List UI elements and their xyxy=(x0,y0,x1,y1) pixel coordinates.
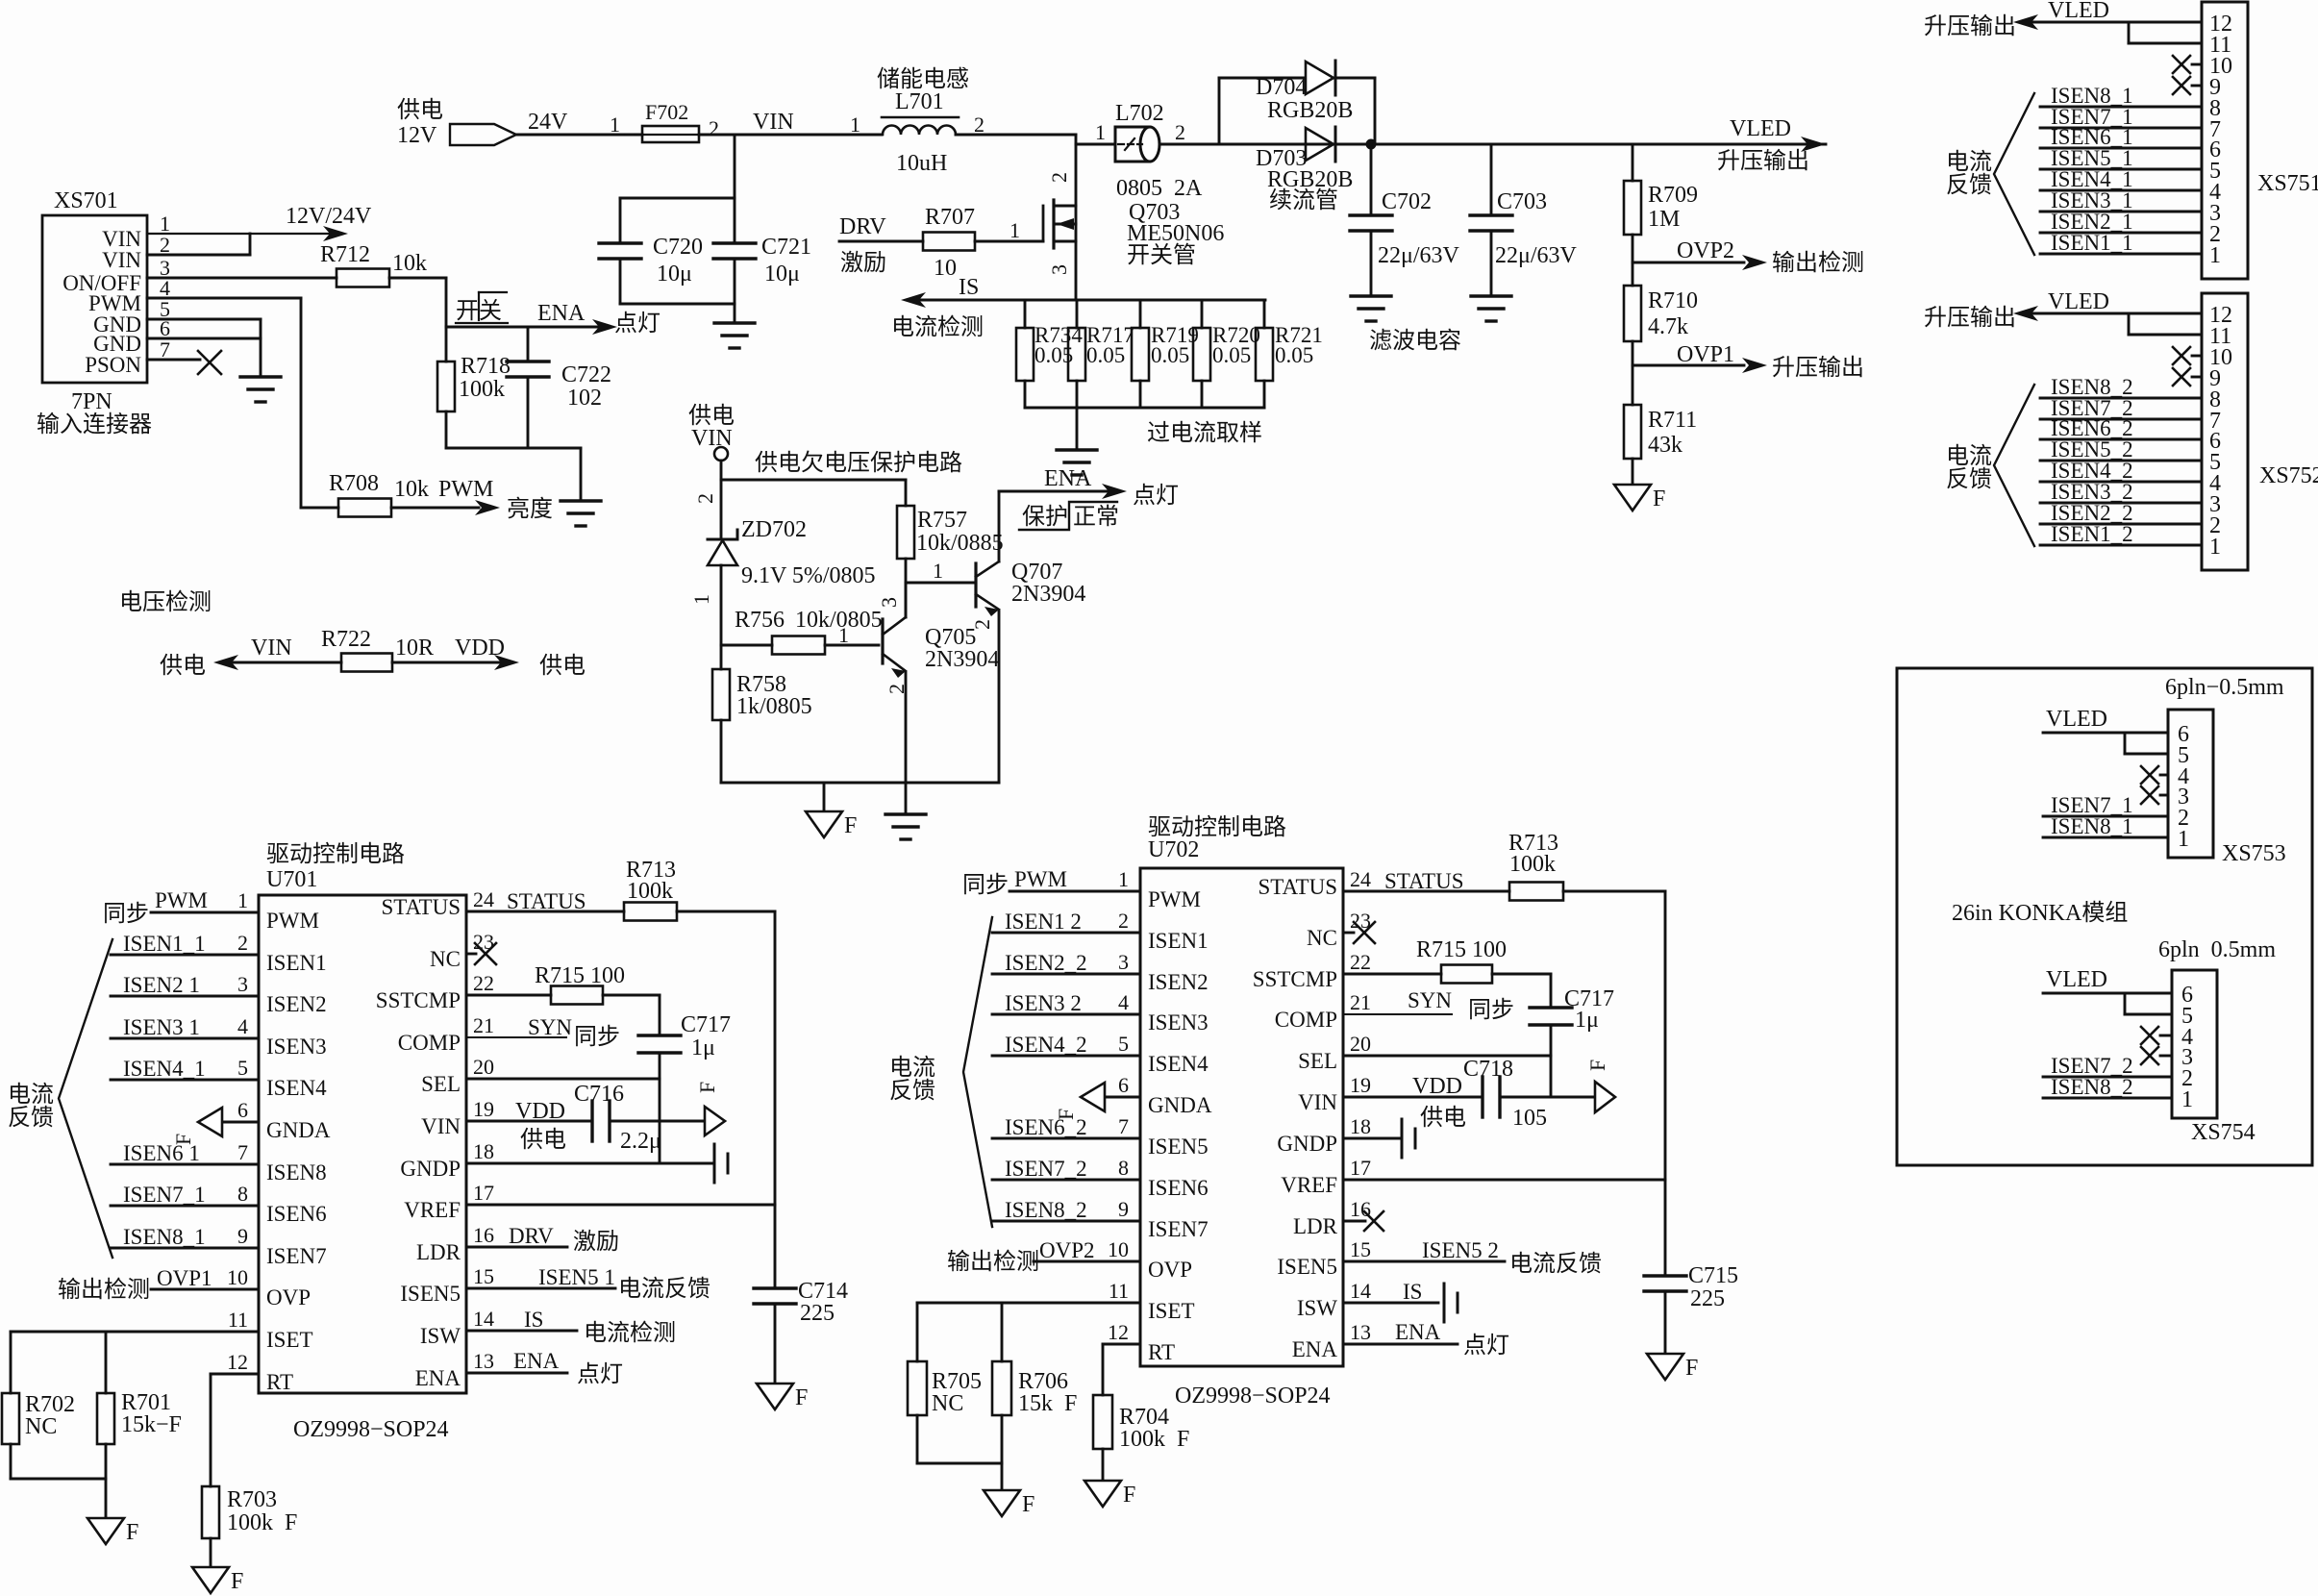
svg-text:LDR: LDR xyxy=(1293,1214,1338,1238)
svg-text:同步: 同步 xyxy=(103,901,149,927)
svg-text:1: 1 xyxy=(2209,243,2221,268)
svg-text:电流反馈: 电流反馈 xyxy=(618,1276,710,1302)
svg-text:7: 7 xyxy=(160,337,170,362)
svg-text:F: F xyxy=(795,1385,808,1410)
svg-text:10μ: 10μ xyxy=(764,262,800,287)
svg-text:VLED: VLED xyxy=(2048,289,2109,314)
svg-text:2.2μ: 2.2μ xyxy=(620,1129,661,1154)
svg-text:电流检测: 电流检测 xyxy=(891,314,984,340)
svg-text:VIN: VIN xyxy=(251,636,292,661)
svg-text:C716: C716 xyxy=(574,1082,624,1107)
svg-text:NC: NC xyxy=(25,1414,57,1439)
svg-text:13: 13 xyxy=(1350,1320,1371,1344)
svg-text:R718: R718 xyxy=(461,354,511,379)
svg-text:LDR: LDR xyxy=(416,1240,461,1264)
svg-text:正常: 正常 xyxy=(1073,504,1119,530)
svg-text:DRV: DRV xyxy=(839,214,886,239)
svg-text:2: 2 xyxy=(1175,120,1185,144)
svg-text:XS701: XS701 xyxy=(54,188,118,213)
svg-text:NC: NC xyxy=(430,947,461,971)
svg-text:4: 4 xyxy=(237,1014,248,1038)
svg-text:12: 12 xyxy=(1108,1320,1129,1344)
svg-text:16: 16 xyxy=(1350,1197,1371,1221)
svg-text:GNDA: GNDA xyxy=(1148,1093,1212,1117)
svg-text:ISET: ISET xyxy=(1148,1299,1195,1323)
svg-text:ISEN8_2: ISEN8_2 xyxy=(1005,1198,1087,1222)
svg-text:R708: R708 xyxy=(329,471,379,496)
svg-text:VLED: VLED xyxy=(2046,707,2107,732)
svg-text:F: F xyxy=(844,813,857,838)
svg-text:VIN: VIN xyxy=(102,248,141,272)
svg-text:电压检测: 电压检测 xyxy=(119,589,212,615)
svg-text:同步: 同步 xyxy=(1468,997,1514,1023)
svg-text:3: 3 xyxy=(877,597,901,608)
svg-text:ENA: ENA xyxy=(1044,466,1092,491)
svg-text:续流管: 续流管 xyxy=(1269,187,1338,213)
svg-text:26in KONKA模组: 26in KONKA模组 xyxy=(1952,900,2128,926)
svg-text:9.1V 5%/0805: 9.1V 5%/0805 xyxy=(741,563,876,588)
svg-text:驱动控制电路: 驱动控制电路 xyxy=(266,841,405,867)
svg-text:ISEN4: ISEN4 xyxy=(1148,1052,1209,1076)
svg-text:供电: 供电 xyxy=(520,1127,566,1153)
svg-text:激励: 激励 xyxy=(573,1229,619,1255)
svg-text:PSON: PSON xyxy=(85,353,141,377)
svg-text:1: 1 xyxy=(2181,1087,2193,1112)
svg-text:R722: R722 xyxy=(321,627,371,652)
svg-text:102: 102 xyxy=(567,386,602,411)
svg-text:ISW: ISW xyxy=(420,1324,461,1348)
svg-text:ISEN6_2: ISEN6_2 xyxy=(1005,1115,1087,1139)
svg-text:C703: C703 xyxy=(1497,189,1547,214)
svg-text:供电欠电压保护电路: 供电欠电压保护电路 xyxy=(755,450,962,476)
svg-text:10: 10 xyxy=(934,256,957,281)
svg-text:R707: R707 xyxy=(925,205,975,230)
svg-text:电流检测: 电流检测 xyxy=(584,1320,676,1346)
svg-text:PWM: PWM xyxy=(1014,867,1067,891)
svg-text:ISEN1_1: ISEN1_1 xyxy=(123,932,206,956)
svg-text:升压输出: 升压输出 xyxy=(1772,355,1864,381)
svg-text:OZ9998−SOP24: OZ9998−SOP24 xyxy=(293,1417,449,1442)
svg-text:输出检测: 输出检测 xyxy=(947,1249,1039,1275)
svg-text:R711: R711 xyxy=(1648,408,1697,433)
svg-text:ISEN5: ISEN5 xyxy=(1148,1135,1209,1159)
svg-text:RT: RT xyxy=(1148,1340,1175,1364)
svg-text:225: 225 xyxy=(800,1301,835,1326)
svg-text:1: 1 xyxy=(689,594,713,605)
svg-text:XS754: XS754 xyxy=(2191,1120,2256,1145)
svg-text:C702: C702 xyxy=(1382,189,1432,214)
svg-text:24: 24 xyxy=(473,887,494,911)
svg-text:10R: 10R xyxy=(395,636,434,661)
svg-text:开关管: 开关管 xyxy=(1127,242,1196,268)
svg-text:滤波电容: 滤波电容 xyxy=(1369,328,1461,354)
svg-text:F: F xyxy=(231,1569,243,1594)
svg-text:点灯: 点灯 xyxy=(1463,1333,1509,1359)
svg-text:ISEN3 1: ISEN3 1 xyxy=(123,1015,200,1039)
svg-text:100k: 100k xyxy=(459,377,505,402)
svg-text:ISEN8_1: ISEN8_1 xyxy=(123,1225,206,1249)
svg-text:VDD: VDD xyxy=(455,636,505,661)
svg-text:F: F xyxy=(126,1520,138,1545)
svg-text:电流: 电流 xyxy=(1946,149,1992,175)
svg-text:COMP: COMP xyxy=(398,1031,461,1055)
svg-text:ISEN8: ISEN8 xyxy=(266,1160,327,1185)
svg-text:ISEN3: ISEN3 xyxy=(266,1035,327,1059)
svg-text:1k/0805: 1k/0805 xyxy=(736,694,812,719)
svg-text:9: 9 xyxy=(1118,1197,1129,1221)
svg-text:14: 14 xyxy=(1350,1279,1371,1303)
svg-text:11: 11 xyxy=(228,1308,248,1332)
svg-text:F: F xyxy=(1653,486,1665,511)
svg-text:电流反馈: 电流反馈 xyxy=(1509,1251,1602,1277)
svg-text:24V: 24V xyxy=(528,110,568,135)
svg-text:OZ9998−SOP24: OZ9998−SOP24 xyxy=(1175,1384,1331,1409)
svg-text:19: 19 xyxy=(473,1097,494,1121)
svg-text:RGB20B: RGB20B xyxy=(1267,98,1353,123)
svg-text:VREF: VREF xyxy=(1281,1173,1337,1197)
svg-text:2: 2 xyxy=(693,493,717,504)
svg-text:R757: R757 xyxy=(917,508,967,533)
svg-text:SYN: SYN xyxy=(1408,988,1452,1012)
svg-text:R703: R703 xyxy=(227,1487,277,1512)
svg-text:6: 6 xyxy=(1118,1073,1129,1097)
svg-text:1: 1 xyxy=(2209,535,2221,560)
svg-text:3: 3 xyxy=(237,972,248,996)
svg-text:L702: L702 xyxy=(1115,101,1164,126)
svg-text:SSTCMP: SSTCMP xyxy=(1253,967,1337,991)
svg-text:ISEN5: ISEN5 xyxy=(400,1282,461,1306)
svg-text:1μ: 1μ xyxy=(691,1035,715,1060)
svg-text:225: 225 xyxy=(1690,1286,1725,1311)
svg-text:1M: 1M xyxy=(1648,207,1680,232)
svg-text:20: 20 xyxy=(473,1055,494,1079)
svg-text:激励: 激励 xyxy=(840,250,886,276)
svg-text:GNDA: GNDA xyxy=(266,1118,331,1142)
svg-text:ISEN6 1: ISEN6 1 xyxy=(123,1141,200,1165)
svg-text:供电: 供电 xyxy=(397,97,443,123)
svg-text:R710: R710 xyxy=(1648,288,1698,313)
svg-text:升压输出: 升压输出 xyxy=(1717,148,1809,174)
svg-text:反馈: 反馈 xyxy=(1946,466,1992,492)
svg-text:ISEN4_2: ISEN4_2 xyxy=(1005,1033,1087,1057)
svg-text:2N3904: 2N3904 xyxy=(1011,582,1085,607)
svg-text:STATUS: STATUS xyxy=(1258,875,1337,899)
svg-text:VIN: VIN xyxy=(1298,1090,1337,1114)
svg-text:0.05: 0.05 xyxy=(1275,343,1313,367)
svg-text:电流: 电流 xyxy=(889,1055,935,1081)
svg-text:保护: 保护 xyxy=(1022,504,1068,530)
svg-text:2: 2 xyxy=(160,233,170,257)
svg-text:15: 15 xyxy=(473,1264,494,1288)
svg-text:NC: NC xyxy=(1307,926,1337,950)
svg-text:同步: 同步 xyxy=(574,1024,620,1050)
svg-text:VREF: VREF xyxy=(404,1198,461,1222)
svg-text:VLED: VLED xyxy=(2048,0,2109,23)
svg-text:ISEN8_1: ISEN8_1 xyxy=(2051,814,2133,838)
svg-text:5: 5 xyxy=(237,1056,248,1080)
svg-text:VIN: VIN xyxy=(753,110,794,135)
svg-text:4.7k: 4.7k xyxy=(1648,314,1688,339)
svg-text:15k F: 15k F xyxy=(1018,1391,1077,1416)
svg-text:22μ/63V: 22μ/63V xyxy=(1495,243,1578,268)
svg-text:22μ/63V: 22μ/63V xyxy=(1378,243,1460,268)
svg-text:XS751: XS751 xyxy=(2257,171,2318,196)
svg-text:1: 1 xyxy=(1009,218,1020,242)
svg-text:19: 19 xyxy=(1350,1073,1371,1097)
svg-text:2: 2 xyxy=(1047,172,1071,183)
svg-text:5: 5 xyxy=(1118,1032,1129,1056)
svg-text:ISEN3 2: ISEN3 2 xyxy=(1005,991,1082,1015)
svg-text:1: 1 xyxy=(850,112,860,137)
svg-text:43k: 43k xyxy=(1648,433,1682,458)
svg-text:6pln−0.5mm: 6pln−0.5mm xyxy=(2165,675,2284,700)
svg-text:7PN: 7PN xyxy=(71,389,112,414)
svg-text:点灯: 点灯 xyxy=(1133,483,1179,509)
svg-text:0805 2A: 0805 2A xyxy=(1116,176,1203,201)
svg-text:105: 105 xyxy=(1512,1106,1547,1131)
svg-text:SEL: SEL xyxy=(421,1072,461,1096)
svg-text:12: 12 xyxy=(227,1350,248,1374)
svg-text:F: F xyxy=(695,1082,719,1093)
svg-text:2: 2 xyxy=(970,619,994,630)
svg-text:2: 2 xyxy=(709,116,719,140)
svg-text:16: 16 xyxy=(473,1223,494,1247)
svg-text:亮度: 亮度 xyxy=(507,496,553,522)
svg-text:10: 10 xyxy=(1108,1237,1129,1261)
svg-text:ISEN1_1: ISEN1_1 xyxy=(2051,231,2133,255)
svg-text:8: 8 xyxy=(1118,1156,1129,1180)
svg-text:F702: F702 xyxy=(645,100,688,124)
svg-text:C715: C715 xyxy=(1688,1263,1738,1288)
svg-text:输入连接器: 输入连接器 xyxy=(37,411,152,437)
svg-text:1: 1 xyxy=(1095,120,1106,144)
svg-text:11: 11 xyxy=(1109,1279,1129,1303)
svg-text:反馈: 反馈 xyxy=(1946,172,1992,198)
svg-text:PWM: PWM xyxy=(438,477,493,502)
svg-text:4: 4 xyxy=(1118,990,1129,1014)
svg-text:9: 9 xyxy=(237,1224,248,1248)
svg-text:0.05: 0.05 xyxy=(1151,343,1189,367)
svg-text:22: 22 xyxy=(473,971,494,995)
svg-text:10μ: 10μ xyxy=(657,262,692,287)
svg-text:10k/0885: 10k/0885 xyxy=(916,531,1004,556)
svg-text:ISEN6: ISEN6 xyxy=(1148,1176,1209,1200)
svg-text:R715 100: R715 100 xyxy=(535,963,625,988)
svg-text:ENA: ENA xyxy=(1395,1320,1441,1344)
svg-text:6: 6 xyxy=(237,1098,248,1122)
svg-text:C721: C721 xyxy=(761,235,811,260)
svg-text:反馈: 反馈 xyxy=(889,1078,935,1104)
svg-text:R756: R756 xyxy=(735,608,785,633)
svg-text:0.05: 0.05 xyxy=(1034,343,1073,367)
svg-text:C722: C722 xyxy=(561,362,611,387)
svg-text:F: F xyxy=(1123,1483,1135,1508)
svg-text:1: 1 xyxy=(1118,867,1129,891)
svg-text:R709: R709 xyxy=(1648,183,1698,208)
svg-text:C717: C717 xyxy=(681,1012,731,1037)
svg-text:IS: IS xyxy=(959,275,979,300)
svg-text:F: F xyxy=(1685,1356,1698,1381)
svg-text:ISEN4: ISEN4 xyxy=(266,1076,327,1100)
svg-text:15: 15 xyxy=(1350,1237,1371,1261)
svg-text:13: 13 xyxy=(473,1349,494,1373)
svg-text:ISEN4_1: ISEN4_1 xyxy=(123,1057,206,1081)
svg-text:ISEN7: ISEN7 xyxy=(266,1244,327,1268)
svg-text:F: F xyxy=(1585,1060,1609,1071)
svg-text:GNDP: GNDP xyxy=(400,1157,461,1181)
svg-text:ENA: ENA xyxy=(415,1366,461,1390)
svg-text:2: 2 xyxy=(974,112,985,137)
svg-text:18: 18 xyxy=(1350,1114,1371,1138)
svg-text:反馈: 反馈 xyxy=(8,1105,54,1131)
svg-text:100k: 100k xyxy=(1509,852,1556,877)
svg-text:8: 8 xyxy=(237,1182,248,1206)
svg-text:VDD: VDD xyxy=(1412,1074,1462,1099)
svg-text:驱动控制电路: 驱动控制电路 xyxy=(1148,814,1286,840)
svg-text:ISEN1: ISEN1 xyxy=(266,951,327,975)
svg-text:输出检测: 输出检测 xyxy=(58,1277,150,1303)
svg-text:电流: 电流 xyxy=(8,1082,54,1108)
svg-text:SSTCMP: SSTCMP xyxy=(376,988,461,1012)
svg-text:7: 7 xyxy=(1118,1114,1129,1138)
svg-text:ISET: ISET xyxy=(266,1328,313,1352)
svg-text:C720: C720 xyxy=(653,235,703,260)
svg-text:ENA: ENA xyxy=(1292,1337,1338,1361)
svg-text:R715 100: R715 100 xyxy=(1416,937,1507,962)
svg-text:升压输出: 升压输出 xyxy=(1924,13,2016,39)
svg-text:1: 1 xyxy=(237,888,248,912)
svg-text:点灯: 点灯 xyxy=(577,1361,623,1387)
svg-text:17: 17 xyxy=(473,1181,494,1205)
svg-text:15k−F: 15k−F xyxy=(121,1412,182,1437)
svg-text:1μ: 1μ xyxy=(1575,1008,1599,1033)
svg-text:ISEN3: ISEN3 xyxy=(1148,1010,1209,1035)
svg-text:17: 17 xyxy=(1350,1156,1371,1180)
svg-text:100k F: 100k F xyxy=(227,1510,297,1535)
svg-text:U701: U701 xyxy=(266,867,317,892)
svg-text:10k: 10k xyxy=(392,251,427,276)
svg-text:0.05: 0.05 xyxy=(1212,343,1251,367)
svg-text:升压输出: 升压输出 xyxy=(1924,305,2016,331)
svg-text:2N3904: 2N3904 xyxy=(925,647,999,672)
svg-text:F: F xyxy=(1022,1492,1034,1517)
svg-text:供电: 供电 xyxy=(688,403,735,429)
svg-text:PWM: PWM xyxy=(266,909,319,933)
svg-text:6pln 0.5mm: 6pln 0.5mm xyxy=(2158,937,2276,962)
svg-text:ISEN1: ISEN1 xyxy=(1148,929,1209,953)
svg-text:100k F: 100k F xyxy=(1119,1427,1189,1452)
svg-text:ISEN6: ISEN6 xyxy=(266,1202,327,1226)
svg-text:STATUS: STATUS xyxy=(507,889,586,913)
svg-text:ENA: ENA xyxy=(513,1349,560,1373)
svg-text:10k: 10k xyxy=(394,477,429,502)
svg-text:D704: D704 xyxy=(1256,75,1307,100)
svg-text:12V: 12V xyxy=(397,123,437,148)
svg-text:2: 2 xyxy=(1118,909,1129,933)
svg-text:100k: 100k xyxy=(627,879,673,904)
svg-text:ISEN2: ISEN2 xyxy=(1148,970,1209,994)
svg-text:同步: 同步 xyxy=(962,872,1009,898)
svg-text:ISEN5 1: ISEN5 1 xyxy=(538,1265,615,1289)
svg-text:ISW: ISW xyxy=(1297,1296,1337,1320)
svg-text:电流: 电流 xyxy=(1946,443,1992,469)
svg-text:OVP: OVP xyxy=(1148,1258,1192,1282)
svg-text:R712: R712 xyxy=(320,242,370,267)
svg-text:2: 2 xyxy=(237,931,248,955)
svg-text:U702: U702 xyxy=(1148,837,1199,862)
svg-text:ISEN2_2: ISEN2_2 xyxy=(1005,951,1087,975)
svg-text:XS752: XS752 xyxy=(2259,463,2318,488)
svg-text:2: 2 xyxy=(885,684,909,694)
svg-text:OVP1: OVP1 xyxy=(157,1266,212,1290)
svg-text:IS: IS xyxy=(1403,1280,1422,1304)
svg-text:ISEN2 1: ISEN2 1 xyxy=(123,973,200,997)
svg-text:18: 18 xyxy=(473,1139,494,1163)
svg-text:ISEN8_2: ISEN8_2 xyxy=(2051,1075,2133,1099)
svg-text:储能电感: 储能电感 xyxy=(877,66,969,92)
svg-text:3: 3 xyxy=(1047,264,1071,275)
svg-text:SEL: SEL xyxy=(1298,1049,1337,1073)
svg-text:OVP: OVP xyxy=(266,1285,311,1309)
svg-text:过电流取样: 过电流取样 xyxy=(1147,420,1262,446)
svg-text:ISEN1 2: ISEN1 2 xyxy=(1005,910,1082,934)
svg-text:24: 24 xyxy=(1350,867,1371,891)
svg-text:供电: 供电 xyxy=(539,653,586,679)
svg-text:供电: 供电 xyxy=(160,653,206,679)
svg-text:OVP1: OVP1 xyxy=(1677,342,1734,367)
svg-text:0.05: 0.05 xyxy=(1086,343,1125,367)
svg-text:12V/24V: 12V/24V xyxy=(286,204,372,229)
svg-text:14: 14 xyxy=(473,1307,494,1331)
svg-text:ZD702: ZD702 xyxy=(741,517,807,542)
svg-text:点灯: 点灯 xyxy=(614,311,661,337)
svg-text:ISEN5: ISEN5 xyxy=(1277,1255,1337,1279)
svg-text:3: 3 xyxy=(1118,950,1129,974)
svg-text:20: 20 xyxy=(1350,1032,1371,1056)
svg-text:PWM: PWM xyxy=(155,888,208,912)
svg-text:供电: 供电 xyxy=(1420,1105,1466,1131)
svg-text:SYN: SYN xyxy=(528,1015,572,1039)
svg-text:1: 1 xyxy=(933,559,943,583)
svg-text:VLED: VLED xyxy=(1730,116,1791,141)
svg-text:1: 1 xyxy=(2178,827,2189,852)
svg-text:GNDP: GNDP xyxy=(1277,1132,1337,1156)
svg-text:STATUS: STATUS xyxy=(381,895,461,919)
svg-text:NC: NC xyxy=(932,1391,963,1416)
svg-text:ISEN7_2: ISEN7_2 xyxy=(1005,1157,1087,1181)
svg-text:1: 1 xyxy=(610,112,620,137)
svg-text:7: 7 xyxy=(237,1140,248,1164)
svg-text:COMP: COMP xyxy=(1275,1008,1337,1032)
svg-text:OVP2: OVP2 xyxy=(1677,238,1734,263)
svg-text:VIN: VIN xyxy=(421,1114,461,1138)
svg-text:IS: IS xyxy=(524,1308,543,1332)
svg-text:XS753: XS753 xyxy=(2222,841,2286,866)
svg-text:21: 21 xyxy=(473,1013,494,1037)
svg-text:1: 1 xyxy=(838,623,849,647)
svg-text:VLED: VLED xyxy=(2046,967,2107,992)
svg-text:ENA: ENA xyxy=(537,301,586,326)
svg-text:L701: L701 xyxy=(895,89,944,114)
svg-text:VIN: VIN xyxy=(691,426,733,451)
svg-text:10uH: 10uH xyxy=(896,151,947,176)
svg-text:ISEN7_1: ISEN7_1 xyxy=(123,1183,206,1207)
svg-text:21: 21 xyxy=(1350,990,1371,1014)
svg-text:C718: C718 xyxy=(1463,1057,1513,1082)
svg-text:PWM: PWM xyxy=(1148,887,1201,911)
svg-text:ISEN2: ISEN2 xyxy=(266,992,327,1016)
svg-text:RT: RT xyxy=(266,1370,293,1394)
